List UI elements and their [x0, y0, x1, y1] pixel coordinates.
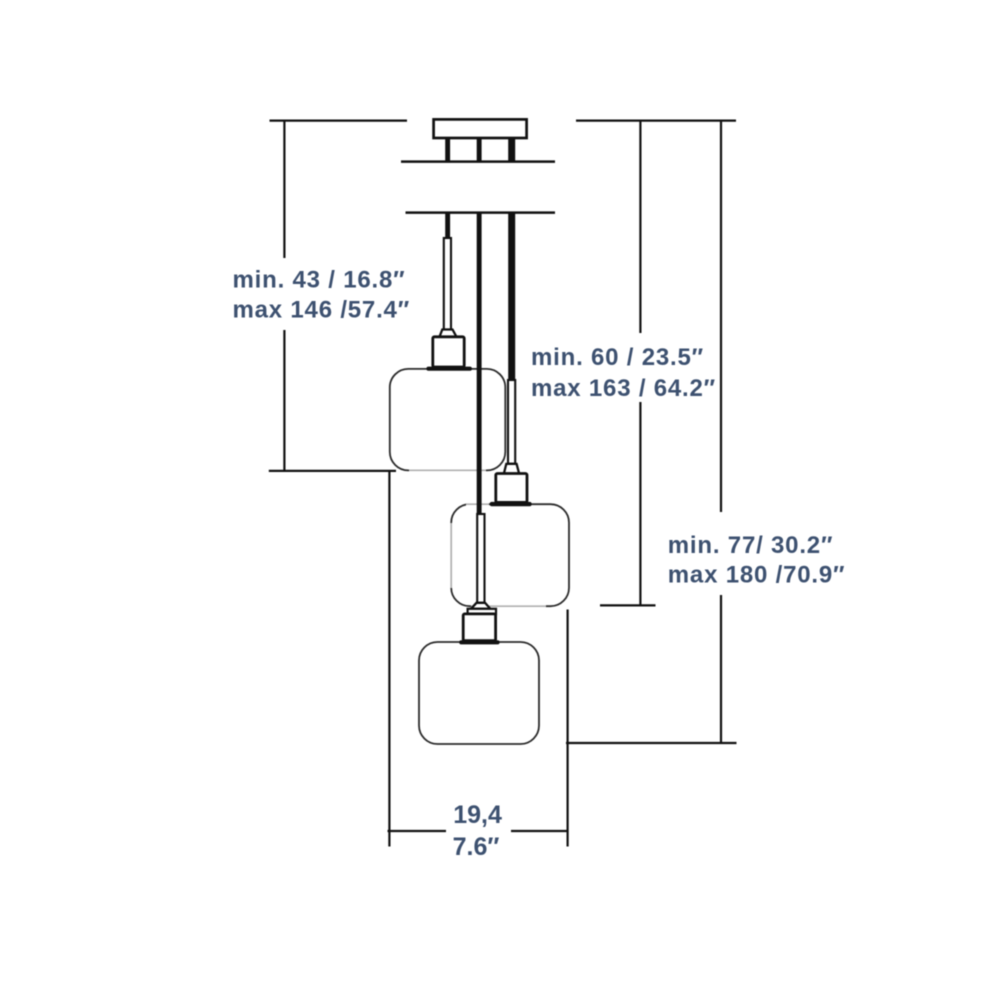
- socket holder 1: [433, 337, 464, 367]
- socket holder 3: [463, 614, 495, 641]
- svg-text:min. 43 / 16.8″: min. 43 / 16.8″: [233, 267, 406, 294]
- socket holder 2: [496, 474, 527, 503]
- shade neck flange 3: [459, 640, 499, 644]
- dimension line left vertical (upper segment): [283, 120, 285, 258]
- dimension line right vertical (upper segment): [720, 120, 722, 512]
- shade neck flange 2: [490, 502, 532, 506]
- lampshade glass 2 left edge (light): [450, 523, 453, 588]
- svg-text:max 163 / 64.2″: max 163 / 64.2″: [531, 375, 716, 402]
- ceiling break line lower: [406, 211, 556, 214]
- dimension left bottom tick: [269, 470, 396, 472]
- dimension top tick left: [270, 119, 408, 121]
- lampshade glass 2 (middle pendant): [451, 504, 569, 606]
- dimension line middle vertical (lower segment): [639, 402, 641, 606]
- svg-text:min. 60 / 23.5″: min. 60 / 23.5″: [531, 344, 704, 371]
- canopy post 2: [477, 138, 482, 162]
- width extension line left: [388, 471, 390, 847]
- lampshade glass 2 bottom edge (light): [471, 605, 546, 608]
- canopy post 3: [508, 138, 515, 162]
- socket collar 3: [468, 609, 496, 614]
- svg-text:19,4: 19,4: [453, 801, 502, 829]
- wire suspension cable 1 (short, solid): [445, 212, 450, 239]
- wire suspension cable 2 (long, solid, to bottom pendant): [477, 212, 482, 514]
- dimension line middle vertical (upper segment): [639, 120, 641, 333]
- width dimension line left segment: [388, 830, 447, 832]
- svg-text:min. 77/ 30.2″: min. 77/ 30.2″: [668, 532, 833, 559]
- dimension right bottom tick: [566, 742, 737, 744]
- ceiling break line upper: [401, 160, 555, 163]
- wire thin stem 1: [444, 238, 451, 330]
- lampshade glass 1 (top pendant): [390, 369, 506, 471]
- shade neck flange 1: [426, 367, 472, 371]
- dimension line right vertical (lower segment): [720, 595, 722, 743]
- socket flare 1: [440, 330, 457, 337]
- dimension line left vertical (lower segment): [283, 330, 285, 470]
- socket flare 2: [504, 464, 519, 474]
- ceiling canopy plate: [434, 119, 527, 138]
- wire suspension cable 3 (medium, solid, to middle pendant): [508, 212, 515, 381]
- width dimension line right segment: [511, 830, 568, 832]
- wire thin stem 2: [508, 380, 515, 464]
- lampshade glass 3 (bottom pendant): [419, 642, 539, 744]
- lampshade glass 1 bottom edge (light): [409, 469, 486, 472]
- svg-text:max 146 /57.4″: max 146 /57.4″: [233, 297, 411, 324]
- svg-text:max 180 /70.9″: max 180 /70.9″: [668, 562, 846, 589]
- dimension top tick right: [576, 119, 736, 121]
- canopy post 1: [445, 138, 450, 162]
- svg-text:7.6″: 7.6″: [453, 833, 500, 861]
- socket flare 3: [471, 603, 490, 609]
- width extension line right: [566, 610, 568, 847]
- lampshade glass 2 top edge left part (light): [466, 503, 489, 506]
- wire thin stem 3: [477, 514, 484, 603]
- dimension middle bottom tick: [600, 604, 656, 606]
